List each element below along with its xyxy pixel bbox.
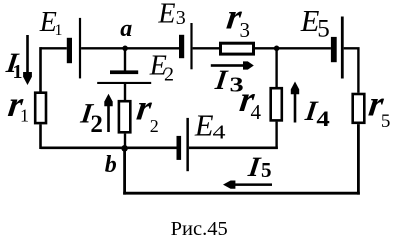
- arrow I2 (current up): [104, 94, 112, 132]
- label r1: [6, 84, 27, 124]
- node b label: [105, 152, 117, 178]
- wire left branch upper vertical: [39, 47, 42, 91]
- svg-text:1: 1: [55, 22, 63, 39]
- arrow I3 (current right): [211, 61, 254, 69]
- node b junction dot: [121, 145, 128, 152]
- resistor r5: [353, 94, 365, 123]
- node junction dot right of r3: [274, 46, 280, 52]
- svg-text:5: 5: [317, 15, 330, 42]
- svg-text:E: E: [157, 0, 175, 29]
- resistor r1: [35, 93, 46, 123]
- svg-text:2: 2: [90, 111, 103, 138]
- wire node b down to bottom loop: [123, 148, 126, 195]
- label I2: [78, 98, 95, 129]
- svg-text:4: 4: [251, 100, 262, 124]
- svg-text:5: 5: [261, 158, 272, 182]
- wire top-left horizontal: [41, 47, 67, 49]
- battery E3: [179, 23, 193, 69]
- svg-text:b: b: [105, 152, 117, 178]
- svg-text:1: 1: [20, 105, 29, 125]
- battery E1: [67, 18, 81, 79]
- resistor r2: [119, 101, 130, 132]
- caption Рис.45: [171, 218, 228, 240]
- wire junction to r4: [275, 48, 277, 87]
- label I5: [246, 152, 263, 183]
- svg-text:2: 2: [164, 64, 174, 86]
- svg-text:Рис.45: Рис.45: [171, 218, 228, 240]
- wire top middle (E1 to E3 through node a): [81, 47, 179, 49]
- wire E4 to r4 bottom corner: [189, 147, 278, 150]
- label E2: [149, 51, 174, 86]
- wire node a to E2: [124, 48, 126, 70]
- battery E5: [331, 17, 344, 79]
- svg-text:3: 3: [240, 18, 251, 42]
- wire left branch lower vertical: [39, 124, 42, 149]
- label I3: [213, 65, 230, 96]
- svg-text:E: E: [194, 108, 214, 142]
- wire r2 to node b: [124, 134, 126, 148]
- wire r3 to E5 through junction: [255, 47, 331, 49]
- label E4: [194, 108, 214, 142]
- label E1: [39, 7, 63, 39]
- label r3: [224, 0, 245, 36]
- svg-text:5: 5: [381, 111, 391, 132]
- svg-text:4: 4: [316, 107, 329, 131]
- label r5: [366, 84, 387, 124]
- label I1: [4, 48, 21, 79]
- node a label: [120, 16, 132, 42]
- wire bottom loop right vertical up to r5: [357, 124, 360, 195]
- svg-text:4: 4: [213, 121, 226, 143]
- label E3: [157, 0, 185, 29]
- node a junction dot: [122, 46, 128, 52]
- arrow I1 (current down): [23, 35, 32, 85]
- label E5: [300, 4, 330, 43]
- svg-text:2: 2: [150, 116, 159, 136]
- wire E3 to r3: [193, 47, 220, 49]
- svg-text:3: 3: [176, 7, 186, 29]
- svg-text:a: a: [120, 16, 132, 42]
- wire E2 to r2: [124, 84, 126, 100]
- label r2: [134, 88, 155, 128]
- arrow I5 (current left): [223, 181, 272, 189]
- arrow I4 (current up): [291, 82, 299, 123]
- label I4: [303, 96, 320, 127]
- wire bottom loop horizontal: [123, 192, 360, 195]
- wire E5 to top-right corner and down to r5: [344, 47, 359, 93]
- resistor r3: [221, 43, 254, 54]
- label r4: [237, 79, 258, 119]
- svg-text:1: 1: [13, 61, 23, 83]
- wire r4 lower vertical: [275, 122, 277, 149]
- battery E2: [97, 70, 151, 84]
- battery E4: [177, 118, 189, 171]
- wire bottom-left horizontal through node b: [41, 147, 177, 150]
- resistor r4: [271, 88, 282, 120]
